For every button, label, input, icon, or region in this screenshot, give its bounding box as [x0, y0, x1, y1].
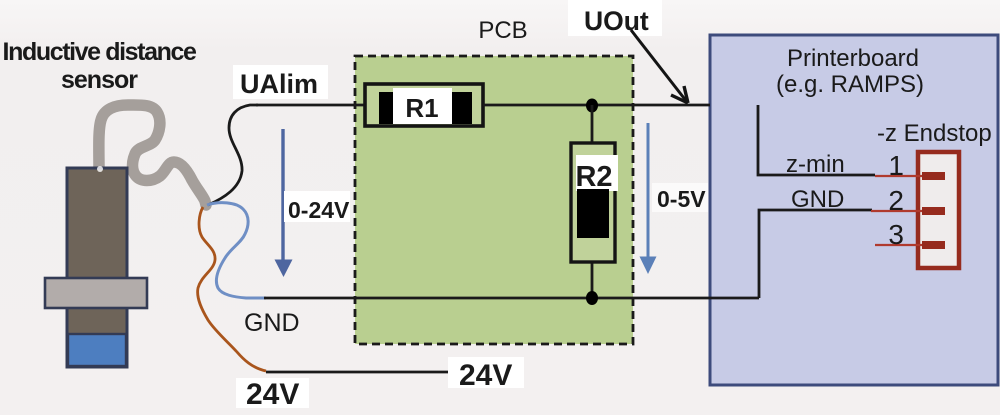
cable entry highlight — [97, 166, 103, 172]
svg-text:Printerboard: Printerboard — [787, 45, 919, 72]
svg-text:3: 3 — [888, 219, 904, 250]
resistor R2 — [571, 143, 618, 262]
PCB module (dashed green board) — [355, 56, 633, 344]
pin 2 lead wire — [871, 210, 922, 212]
resistor R1 — [365, 84, 483, 126]
svg-text:24V: 24V — [246, 378, 299, 411]
svg-text:UAlim: UAlim — [240, 69, 318, 99]
wire 24V (orange curve from sensor cable) — [198, 207, 266, 371]
svg-text:0-5V: 0-5V — [657, 186, 706, 212]
connector J1 -z Endstop — [918, 152, 959, 268]
pin 3 lead wire — [875, 244, 922, 246]
svg-text:2: 2 — [888, 185, 904, 216]
node GND (junction) — [586, 291, 598, 305]
wire 24V horizontal — [266, 371, 448, 374]
pin 1 lead wire — [875, 175, 922, 177]
wire top UAlim horizontal — [256, 104, 366, 107]
svg-text:(e.g. RAMPS): (e.g. RAMPS) — [776, 71, 924, 98]
label 24V (net, right of line) — [448, 357, 524, 388]
label UOut — [568, 0, 662, 36]
sensor tip (blue) — [68, 334, 126, 366]
svg-text:GND: GND — [791, 186, 844, 213]
node UOut (junction) — [586, 99, 598, 113]
arrow 0-5V (blue) — [647, 123, 650, 258]
svg-text:Inductive distance: Inductive distance — [3, 38, 197, 66]
svg-text:24V: 24V — [459, 359, 512, 392]
label 24V (left) — [236, 378, 309, 408]
svg-text:GND: GND — [244, 309, 300, 337]
wire UAlim (black curve from sensor cable) — [208, 105, 258, 205]
label 0-24V — [284, 191, 350, 222]
svg-text:-z Endstop: -z Endstop — [877, 120, 992, 147]
pin 3 contact — [922, 241, 945, 249]
svg-text:sensor: sensor — [61, 66, 138, 94]
svg-text:UOut: UOut — [584, 6, 649, 36]
svg-text:R2: R2 — [575, 161, 612, 193]
label UAlim — [233, 65, 328, 99]
pin 1 contact — [922, 172, 945, 180]
label 0-5V — [652, 183, 708, 212]
sensor nut — [45, 278, 147, 308]
svg-text:PCB: PCB — [478, 17, 527, 44]
arrow UOut (black) — [631, 30, 687, 102]
sensor body — [67, 168, 127, 367]
arrow 0-24V (blue) — [281, 129, 284, 261]
sensor cable — [99, 105, 206, 205]
pin 2 contact — [922, 207, 945, 215]
svg-text:z-min: z-min — [786, 151, 845, 178]
wire z-min inside board — [758, 105, 875, 175]
wire GND inside board — [759, 210, 872, 298]
printerboard (RAMPS) — [710, 35, 998, 385]
wire R1 to node — [483, 104, 710, 107]
svg-text:R1: R1 — [405, 93, 438, 123]
svg-text:0-24V: 0-24V — [288, 197, 350, 223]
wire bottom GND horizontal — [264, 297, 759, 300]
wire GND (blue curve from sensor cable) — [207, 203, 266, 298]
wire R2 vertical — [591, 105, 594, 299]
svg-text:1: 1 — [888, 150, 904, 181]
